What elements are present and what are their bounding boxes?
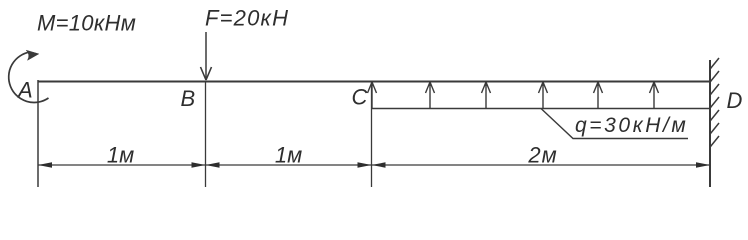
svg-text:q=30кН/м: q=30кН/м xyxy=(575,114,688,137)
dimension arrowheads at A xyxy=(38,162,52,167)
beam AD (top line) xyxy=(38,81,710,83)
moment arrowhead xyxy=(26,50,39,60)
dimension line xyxy=(38,164,710,166)
wall hatching xyxy=(711,58,720,147)
fixed support wall at D xyxy=(709,60,711,187)
svg-text:F=20кН: F=20кН xyxy=(205,6,289,31)
distributed load arrow 1 xyxy=(368,82,377,108)
distributed load baseline CD xyxy=(372,108,711,110)
leader line for q label xyxy=(541,109,688,139)
svg-text:M=10кНм: M=10кНм xyxy=(37,11,136,36)
extension line at C xyxy=(371,82,373,187)
svg-text:D: D xyxy=(727,88,743,113)
svg-text:1м: 1м xyxy=(107,143,134,168)
distributed load arrow 2 xyxy=(426,82,435,108)
svg-text:A: A xyxy=(16,78,33,103)
dimension arrowheads at C xyxy=(358,162,372,167)
svg-text:B: B xyxy=(181,86,196,111)
distributed load arrow 3 xyxy=(482,82,491,108)
svg-text:1м: 1м xyxy=(275,143,302,168)
moment arc M xyxy=(9,52,49,102)
distributed load arrow 5 xyxy=(594,82,603,108)
force F arrow at B xyxy=(205,32,207,80)
distributed load arrow 4 xyxy=(539,82,548,108)
svg-text:C: C xyxy=(352,85,368,110)
svg-text:2м: 2м xyxy=(527,143,557,168)
distributed load arrow 6 xyxy=(650,82,659,108)
dimension arrowhead at D xyxy=(696,162,710,167)
extension line at B xyxy=(205,81,207,187)
dimension arrowheads at B xyxy=(192,162,206,167)
beam left edge / extension line at A xyxy=(37,80,39,187)
